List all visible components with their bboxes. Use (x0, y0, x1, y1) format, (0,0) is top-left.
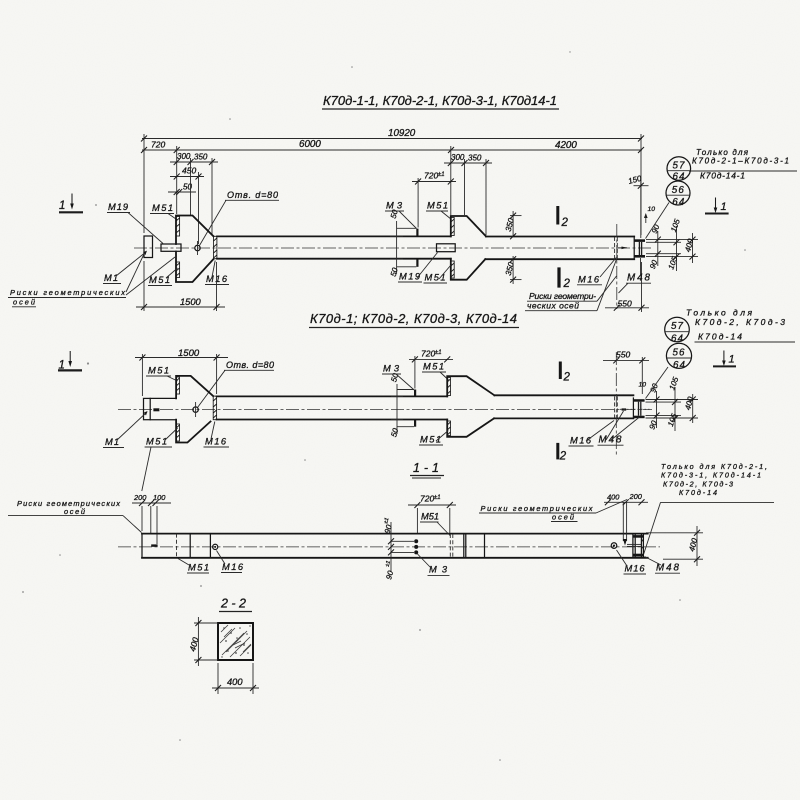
view A M16 plate (head right face) (214, 236, 217, 258)
title view A (322, 93, 559, 109)
svg-text:±1: ±1 (438, 172, 445, 178)
view B M16 plate (head right face) (213, 396, 216, 420)
view A axis dash-dot at 550 (616, 224, 618, 309)
label M3 (view B) (382, 364, 414, 391)
svg-text:450: 450 (182, 166, 196, 176)
section mark 2 bottom (view A) (557, 267, 570, 290)
svg-text:2: 2 (563, 278, 571, 290)
extension line right end view A (640, 134, 642, 235)
view B centerline (118, 408, 652, 410)
view B end plate M1 (144, 398, 151, 419)
svg-text:Отв. d=80: Отв. d=80 (226, 360, 274, 370)
view A M16 hidden plate (dashed) (615, 237, 618, 259)
svg-text:4200: 4200 (555, 140, 577, 151)
label M48 (view A) (619, 258, 652, 293)
label M16 (view C right) (617, 550, 647, 574)
svg-text:56: 56 (673, 348, 686, 359)
section 2-2 concrete hatching (220, 625, 251, 657)
svg-text:350: 350 (194, 153, 208, 162)
view B hole d80 (193, 402, 198, 417)
dim 350 top (view A console) (504, 211, 522, 239)
svg-text:100: 100 (153, 493, 166, 502)
label M51 (view C middle) (420, 512, 451, 537)
section 2-2 dim 400 left (187, 617, 218, 666)
svg-text:М51: М51 (427, 201, 448, 211)
svg-text:К70д-14-1: К70д-14-1 (700, 171, 745, 181)
label M19 below console (view A) (398, 253, 438, 283)
text tolko dlya (view B right) (686, 308, 795, 343)
view A dim 50 of M3 plates (389, 208, 417, 277)
section mark 2 top (view A) (556, 206, 568, 229)
view C M16 bolt right (611, 543, 617, 549)
svg-text:М48: М48 (627, 273, 651, 284)
svg-text:200: 200 (629, 492, 643, 501)
svg-text:550: 550 (618, 299, 632, 309)
view C dim 90+-1 top (383, 517, 394, 550)
svg-text:300: 300 (451, 153, 465, 162)
svg-text:1: 1 (721, 201, 727, 213)
dimension 1500 (view B) (135, 348, 228, 396)
label M51 below console (view A) (424, 264, 452, 283)
svg-text:1500: 1500 (180, 297, 202, 307)
text Riski geometricheskih osej (view C right) (479, 500, 627, 522)
title 2-2 (219, 597, 252, 612)
view A dim 90/105 bottom (648, 248, 680, 271)
view C M3 bolts (three dots) (391, 539, 419, 554)
view A axis risk arrow (618, 247, 628, 250)
svg-text:М48: М48 (599, 435, 623, 446)
svg-text:57: 57 (671, 321, 684, 332)
svg-text:К70д-2-1–К70д-3-1: К70д-2-1–К70д-3-1 (692, 157, 789, 166)
text Riski geometricheskih osej (view A right) (525, 259, 617, 311)
dimension 1500 (view A below head) (136, 261, 225, 311)
svg-text:400: 400 (607, 492, 620, 501)
label M48 (view C right) (645, 557, 681, 574)
circle 57/64 (view B) (665, 317, 690, 344)
svg-text:М1: М1 (105, 437, 119, 447)
dimension 300/350 left head view A (170, 152, 218, 165)
view B dim 90/105 top (648, 375, 680, 409)
view A bottom anchor plate right end (634, 255, 645, 258)
view A shaft bottom edge (217, 258, 451, 260)
svg-text:720: 720 (151, 140, 165, 150)
svg-text:1500: 1500 (178, 348, 200, 359)
label M3 (view A middle) (385, 201, 417, 229)
view B shaft bottom edge (217, 419, 448, 421)
svg-text:М16: М16 (222, 562, 244, 572)
leader text Riski geometricheskih osej (view A left) (8, 253, 175, 307)
title 1-1 (410, 461, 444, 478)
circle 56/64 (view B) (646, 343, 692, 398)
label Otv d=80 (view A) (200, 190, 280, 246)
dimension 720+-1 (view B) (409, 348, 453, 388)
view B M3 plate bottom (414, 420, 416, 427)
svg-text:300: 300 (177, 152, 191, 161)
view B M51 plate bottom of head (176, 424, 179, 441)
dimension 300/350 (view A console) (444, 153, 492, 235)
svg-text:2: 2 (563, 372, 571, 384)
view A console bottom (451, 259, 486, 280)
view A dim 400 right (683, 233, 695, 263)
label M51 top (view B head) (146, 366, 178, 382)
view A M51 plate top of head (176, 217, 180, 237)
view C head end line left (189, 534, 191, 558)
view C dim 400 right (646, 526, 703, 566)
svg-text:М19: М19 (399, 272, 420, 282)
view A M3 plate top (416, 229, 418, 237)
dimension 450 (hole) view A (170, 166, 204, 180)
view B riska thick dash right (622, 408, 627, 410)
label M1 (view A) (103, 251, 147, 284)
text tolko dlya (view C right block) (644, 462, 774, 554)
dimension 200/100 (view C left) (132, 493, 171, 544)
view A dim 10 plate (644, 206, 655, 223)
label M16 bottom (view B head) (204, 422, 230, 448)
view A right end extension lines (646, 240, 698, 257)
view B console bottom (447, 418, 494, 436)
view A M51 plate bottom of head (176, 262, 180, 278)
svg-text:осей: осей (13, 298, 35, 307)
label M51 (view C left) (178, 559, 209, 574)
view A dim 150 bolt (627, 174, 648, 238)
svg-text:М51: М51 (188, 563, 209, 573)
view B riska thick dash (153, 408, 159, 411)
svg-text:М51: М51 (152, 203, 173, 213)
svg-text:720: 720 (420, 494, 434, 504)
svg-text:К70д-1; К70д-2, К70д-3, К70д-1: К70д-1; К70д-2, К70д-3, К70д-14 (310, 311, 517, 326)
view A end plate M1 (144, 236, 153, 258)
label M19 (view A head) (107, 202, 163, 244)
svg-text:М1: М1 (104, 273, 118, 283)
svg-text:Риски геометрических: Риски геометрических (17, 499, 120, 508)
circle 57/64 (view A) (667, 157, 691, 183)
label M1 (view B) (103, 411, 148, 448)
svg-text:6000: 6000 (299, 139, 321, 150)
label M51 bottom left (view A) (148, 268, 178, 286)
svg-text:ческих осей: ческих осей (527, 301, 579, 311)
svg-text:1-1: 1-1 (413, 461, 439, 475)
section mark 1 right (view A) (705, 198, 729, 214)
svg-text:720: 720 (421, 348, 435, 358)
svg-text:1: 1 (729, 354, 735, 366)
view A M19 anchor bar (161, 244, 181, 251)
svg-text:64: 64 (673, 360, 686, 371)
view B shaft top edge (217, 395, 448, 397)
dimension 10920 (view A overall) (141, 128, 644, 142)
view C M51 plate left (dashed) (176, 534, 178, 558)
circle 56/64 (view A) (646, 181, 691, 239)
svg-text:64: 64 (672, 197, 685, 208)
view B console top (447, 376, 494, 396)
svg-text:М51: М51 (421, 512, 439, 522)
label Otv d=80 (view B) (198, 360, 275, 408)
dimension 720+-1 (view A console) (412, 171, 456, 228)
label M51 below console (view B) (419, 431, 448, 446)
view B dim 400 right (683, 394, 695, 423)
dimension 50 view A head (168, 183, 196, 196)
view B M48 bolt right end (639, 402, 641, 416)
svg-text:57: 57 (673, 161, 686, 172)
view C M16 bolt left (213, 544, 218, 549)
svg-text:200: 200 (133, 493, 147, 502)
view A centerline (134, 247, 652, 249)
section 2-2 square (218, 623, 253, 660)
view A M3 plate bottom (416, 259, 418, 267)
svg-text:осей: осей (552, 513, 574, 522)
view B head outline (176, 376, 213, 443)
view A dim 550 (605, 262, 649, 312)
view C right end assembly (627, 534, 643, 557)
svg-text:400: 400 (227, 677, 243, 687)
svg-text:М16: М16 (205, 437, 227, 447)
label M51 (view B console) (422, 362, 449, 381)
view C M51 plates (dashed pair) (450, 534, 453, 557)
svg-text:2: 2 (561, 217, 569, 229)
view A M48 bolt right end (639, 242, 641, 255)
extension line head face view A (176, 146, 178, 214)
svg-text:М51: М51 (423, 362, 444, 372)
view C riska extension with arrow (623, 502, 627, 545)
label M3 (view C) (418, 554, 450, 575)
svg-text:350: 350 (468, 154, 482, 163)
label M51 bottom (view B) (142, 428, 178, 491)
view C M16 plate line left (209, 534, 211, 558)
title view B (309, 311, 519, 328)
view A M19 bar at console (437, 244, 456, 252)
extension line console view A (450, 146, 452, 215)
dimension line 720 / 6000 / 4200 (view A) (141, 139, 644, 153)
svg-text:М16: М16 (625, 564, 646, 574)
svg-text:±1: ±1 (434, 495, 441, 501)
label M16 (view B right) (569, 421, 615, 447)
section 2-2 dim 400 bottom (212, 663, 259, 694)
svg-text:Риски геометри-: Риски геометри- (529, 291, 596, 301)
section mark 1 left (view B) (58, 351, 82, 372)
svg-text:56: 56 (672, 185, 685, 196)
svg-text:1: 1 (59, 200, 65, 212)
view A top anchor plate right end (634, 239, 645, 242)
extension lines small dims view A head (190, 158, 192, 216)
view B right end face (632, 398, 634, 418)
svg-text:М51: М51 (148, 366, 169, 376)
label M51 top (view A head) (150, 203, 178, 220)
dimension 400/200 (view C right) (604, 492, 648, 505)
text Riski geometricheskih osej (view C left) (8, 499, 142, 533)
section mark 2 bottom (view B) (556, 443, 567, 463)
svg-text:М19: М19 (108, 202, 128, 212)
svg-text:720: 720 (424, 171, 438, 181)
section mark 1 left (view A) (59, 194, 83, 213)
view A dim 90/105 top (650, 217, 682, 248)
view B bottom anchor plate right end (633, 416, 644, 419)
view B axis dash-dot (615, 352, 617, 456)
dim 350 bottom (view A console) (504, 256, 522, 284)
label M51 (view A console) (426, 201, 452, 220)
view A right end face (633, 237, 635, 260)
svg-text:К70д-1-1, К70д-2-1, К70д-3-1,: К70д-1-1, К70д-2-1, К70д-3-1, К70д14-1 (323, 93, 557, 108)
view B right end extension lines (646, 400, 699, 419)
text tolko dlya top right (689, 148, 797, 181)
svg-text:М51: М51 (425, 273, 446, 283)
dimension 720+-1 (view C) (408, 494, 456, 534)
view C dim 90+-1 bottom (384, 546, 395, 581)
label M16 (view C left) (217, 551, 244, 573)
svg-text:Риски геометрических: Риски геометрических (481, 504, 593, 513)
view B top anchor plate right end (633, 399, 644, 402)
view C console edge lines (464, 534, 485, 558)
svg-text:М16: М16 (570, 436, 592, 446)
label M16 (view A right, hidden plate) (577, 258, 616, 285)
svg-text:осей: осей (64, 507, 85, 516)
dim 550 (view B) (603, 350, 649, 395)
svg-text:10: 10 (648, 206, 656, 213)
view A head outline (176, 216, 214, 283)
view C bar outline (142, 534, 648, 558)
svg-text:Отв. d=80: Отв. d=80 (227, 190, 278, 200)
label M16 (view A) (205, 261, 229, 285)
extension line left end view A (143, 134, 145, 233)
view A hole d80 (195, 241, 200, 255)
view B dotted centerline stub (620, 408, 652, 410)
view B plate-to-head connection lines (150, 398, 176, 419)
svg-text:2: 2 (559, 451, 567, 463)
section mark 1 right (view B) (713, 351, 736, 367)
view B M51 plate top of head (176, 377, 179, 394)
svg-text:50: 50 (183, 183, 192, 192)
label M48 (view B right) (598, 411, 640, 446)
svg-text:±1: ±1 (435, 350, 442, 356)
svg-text:2-2: 2-2 (220, 597, 246, 611)
view B dim 90/105 bottom (647, 409, 679, 431)
svg-text:10: 10 (639, 382, 647, 389)
view A shaft top edge (217, 235, 451, 237)
svg-text:550: 550 (616, 350, 630, 360)
view B M3 plate top (414, 390, 416, 397)
svg-text:Риски геометрических: Риски геометрических (10, 288, 125, 297)
section mark 2 top (view B) (559, 362, 571, 384)
view C centerline (118, 546, 660, 548)
svg-text:М51: М51 (149, 275, 170, 285)
svg-text:М51: М51 (146, 437, 167, 447)
view A console top (451, 216, 486, 236)
svg-text:М16: М16 (578, 275, 600, 285)
view B dim 50 of M3 plates (389, 372, 414, 438)
view B M16 hidden plate (dashed) (615, 396, 618, 419)
svg-text:10920: 10920 (388, 128, 416, 139)
view C riska thick dash left (151, 544, 157, 546)
